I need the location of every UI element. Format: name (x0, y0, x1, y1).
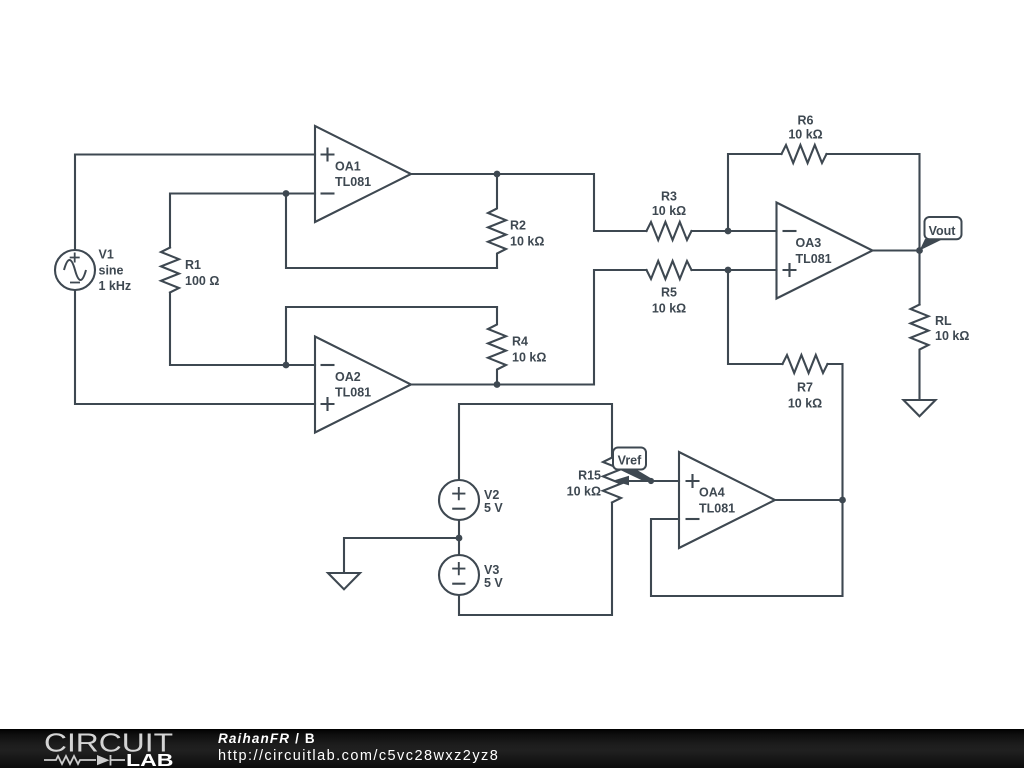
resistor R5 (647, 261, 692, 279)
svg-text:5 V: 5 V (484, 576, 503, 590)
svg-text:R6: R6 (798, 114, 814, 128)
svg-text:10 kΩ: 10 kΩ (512, 351, 546, 365)
svg-text:TL081: TL081 (699, 502, 735, 516)
wire OA4 feedback loop (651, 500, 843, 596)
svg-text:R5: R5 (661, 286, 677, 300)
wire V1- to OA2 +in (75, 290, 315, 404)
voltage source V1 (0, 0, 95, 290)
resistor R7 (783, 355, 828, 373)
svg-text:V3: V3 (484, 563, 499, 577)
wire OA2 feedback node B to R4 top (286, 307, 497, 365)
svg-text:R7: R7 (797, 381, 813, 395)
junction node OA3 +in (725, 267, 732, 274)
footer credit text (218, 731, 316, 746)
label V1 (99, 248, 132, 294)
flag Vout (925, 217, 962, 239)
junction node Vout (916, 247, 923, 254)
svg-text:R2: R2 (510, 219, 526, 233)
resistor R2 (488, 174, 506, 268)
flag tail Vout (920, 239, 942, 251)
wire R1 top to OA1 -in (170, 194, 315, 248)
label R4 (512, 335, 546, 365)
wire R7 down to OA4 out node (828, 364, 843, 500)
op-amp OA2 (315, 337, 411, 433)
wire OA3 +in node down to R7 (728, 270, 783, 364)
svg-text:10 kΩ: 10 kΩ (567, 485, 601, 499)
wire V2 top to R15 top (459, 404, 612, 480)
wire R1 bottom to OA2 -in (170, 293, 315, 366)
wire R3 to OA3 -in (692, 230, 777, 232)
junction node OA4 out (839, 497, 846, 504)
wire V1+ to OA1 +in (75, 155, 315, 251)
resistor R15 (603, 458, 621, 503)
wire OA3 -in node up to R6 (728, 154, 782, 231)
label R6 (788, 114, 822, 142)
label RL (935, 314, 969, 343)
label OA2 (335, 370, 371, 400)
junction node V2/V3 (456, 535, 463, 542)
resistor R4 (488, 307, 506, 385)
resistor RL (911, 305, 929, 401)
svg-text:5 V: 5 V (484, 501, 503, 515)
voltage source V3 (439, 555, 479, 595)
svg-text:V1: V1 (99, 248, 114, 262)
wire Vref node to OA4 +in (651, 480, 679, 482)
footer bar (0, 729, 1024, 768)
label R7 (788, 381, 822, 411)
wire V2/V3 node to ground (344, 538, 459, 573)
svg-text:10 kΩ: 10 kΩ (788, 128, 822, 142)
wire V2 to V3 (458, 520, 460, 555)
svg-text:100 Ω: 100 Ω (185, 274, 219, 288)
ground below V2/V3 node (328, 573, 360, 589)
resistor R6 (782, 145, 827, 163)
flag Vref (613, 448, 646, 470)
label R15 (567, 469, 601, 499)
footer url (218, 748, 499, 764)
junction node OA3 -in (725, 228, 732, 235)
op-amp OA4 (679, 452, 775, 548)
svg-text:TL081: TL081 (335, 175, 371, 189)
resistor R1 (161, 248, 179, 293)
label R2 (510, 219, 544, 249)
svg-text:OA4: OA4 (699, 486, 725, 500)
svg-text:R1: R1 (185, 258, 201, 272)
svg-text:10 kΩ: 10 kΩ (510, 235, 544, 249)
resistor R3 (647, 222, 692, 240)
svg-text:OA3: OA3 (796, 236, 822, 250)
label R5 (652, 286, 686, 316)
wire OA4 out (775, 499, 843, 501)
wire Vout node down to RL (918, 251, 920, 305)
label OA4 (699, 486, 735, 516)
svg-text:10 kΩ: 10 kΩ (935, 329, 969, 343)
resistor R15 wiper arm (628, 480, 651, 482)
svg-text:RL: RL (935, 314, 952, 328)
svg-text:Vref: Vref (618, 453, 642, 467)
svg-text:V2: V2 (484, 488, 499, 502)
junction node OA2 -in (283, 362, 290, 369)
svg-text:sine: sine (99, 263, 124, 277)
ground below RL (904, 400, 936, 416)
svg-text:Vout: Vout (929, 224, 957, 238)
svg-text:TL081: TL081 (796, 252, 832, 266)
label R1 (185, 258, 219, 288)
label V3 (484, 563, 503, 590)
wiper arrowhead of R15 (613, 476, 629, 486)
junction node OA1 out (494, 171, 501, 178)
svg-text:OA2: OA2 (335, 370, 361, 384)
op-amp OA1 (315, 126, 411, 222)
wire OA1 out to R3 (411, 174, 647, 231)
svg-text:R4: R4 (512, 335, 528, 349)
wire R15 bottom to V3 bottom (459, 503, 612, 616)
op-amp OA3 (777, 203, 873, 299)
junction node OA2 out (494, 381, 501, 388)
svg-text:R15: R15 (578, 469, 601, 483)
junction node Vref wiper (648, 478, 654, 484)
svg-text:1 kHz: 1 kHz (99, 279, 132, 293)
svg-text:10 kΩ: 10 kΩ (652, 204, 686, 218)
svg-text:LAB: LAB (126, 750, 174, 768)
svg-text:10 kΩ: 10 kΩ (788, 397, 822, 411)
CircuitLab logo (0, 729, 200, 768)
svg-text:TL081: TL081 (335, 386, 371, 400)
wire OA1 feedback node A to R2 bottom (286, 194, 497, 269)
wire OA2 out to R5 (411, 270, 647, 385)
wire R6 to Vout node (827, 154, 920, 251)
junction node OA1 -in (283, 190, 290, 197)
label OA1 (335, 160, 371, 190)
label V2 (484, 488, 503, 515)
label R3 (652, 190, 686, 219)
voltage source V2 (439, 480, 479, 520)
svg-text:10 kΩ: 10 kΩ (652, 302, 686, 316)
label OA3 (796, 236, 832, 266)
wire OA3 out (873, 249, 920, 251)
svg-text:R3: R3 (661, 190, 677, 204)
flag tail Vref (618, 469, 652, 482)
wire R5 to OA3 +in (692, 269, 777, 271)
svg-text:OA1: OA1 (335, 160, 361, 174)
